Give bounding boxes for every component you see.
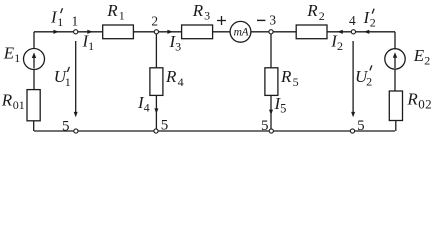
svg-text:R02: R02	[406, 90, 432, 112]
polarity minus	[257, 19, 265, 21]
polarity plus	[217, 16, 226, 25]
current arrow I5 head	[269, 110, 273, 115]
node 5 terminal a	[74, 129, 78, 133]
resistor R5 body	[265, 68, 278, 96]
svg-text:5: 5	[62, 119, 70, 135]
label I1' prime tick	[61, 8, 63, 13]
node 5 terminal b	[154, 129, 158, 133]
wire E2 to R02	[394, 69, 396, 91]
svg-text:I5: I5	[274, 94, 287, 116]
svg-text:R4: R4	[165, 67, 184, 89]
source E2	[385, 49, 405, 69]
source E2 internal arrow head	[393, 52, 397, 58]
source E1 internal arrow head	[32, 52, 36, 58]
wire R4 to bottom	[155, 95, 157, 131]
voltage arrow U1' shaft	[75, 41, 77, 113]
wire node2 to R4	[155, 32, 157, 68]
svg-text:R2: R2	[306, 1, 324, 23]
wire left branch upper	[33, 32, 35, 49]
svg-text:E1: E1	[3, 43, 20, 65]
source E1	[24, 49, 45, 70]
wire right branch upper	[394, 32, 396, 49]
current arrow I1' head	[53, 30, 59, 34]
svg-text:3: 3	[269, 13, 276, 28]
svg-text:I1: I1	[82, 31, 95, 53]
node 3	[269, 30, 273, 34]
source E1 internal arrow shaft	[33, 57, 35, 69]
wire E1 to R01	[33, 70, 35, 90]
node 2	[154, 30, 158, 34]
svg-text:5: 5	[261, 118, 269, 134]
source E2 internal arrow shaft	[394, 56, 396, 68]
label U2' prime tick	[370, 65, 372, 70]
current arrow I4 head	[154, 108, 158, 113]
node 5 terminal d	[350, 129, 354, 133]
wire node3 to R5	[270, 32, 272, 68]
wire R5 to bottom	[270, 95, 272, 131]
resistor R01 body	[27, 90, 40, 121]
svg-text:4: 4	[349, 13, 356, 28]
voltage arrow U2' head	[351, 112, 355, 117]
current arrow I3 head	[167, 30, 173, 34]
svg-text:R01: R01	[1, 91, 25, 113]
svg-text:I3: I3	[169, 32, 182, 54]
svg-text:5: 5	[161, 117, 169, 133]
resistor R02 body	[389, 91, 402, 121]
svg-text:1: 1	[71, 13, 78, 28]
svg-text:R1: R1	[106, 1, 124, 23]
svg-text:5: 5	[357, 118, 365, 134]
label I2' prime tick	[372, 9, 374, 14]
node 5 terminal c	[269, 129, 273, 133]
wire R01 to bottom	[33, 121, 35, 131]
resistor R1 body	[103, 25, 134, 39]
resistor R3 body	[182, 25, 213, 39]
label U1' prime tick	[67, 67, 69, 72]
current arrow I1 head	[87, 30, 93, 34]
svg-text:R5: R5	[280, 67, 299, 89]
voltage arrow U1' head	[74, 112, 78, 117]
milliammeter mA body	[230, 21, 251, 42]
svg-text:R3: R3	[192, 1, 210, 23]
svg-text:I4: I4	[137, 93, 150, 115]
wire R02 to bottom	[395, 121, 397, 132]
resistor R4 body	[150, 68, 163, 96]
resistor R2 body	[296, 25, 327, 39]
wire top rail	[34, 31, 395, 33]
voltage arrow U2' shaft	[352, 41, 354, 113]
current arrow I2 head	[337, 30, 343, 34]
svg-text:2: 2	[151, 13, 158, 28]
current arrow I2' head	[364, 30, 370, 34]
svg-text:mA: mA	[234, 26, 250, 38]
node 4	[351, 30, 355, 34]
svg-text:E2: E2	[413, 46, 430, 68]
node 1	[74, 30, 78, 34]
wire bottom rail node 5	[34, 130, 395, 132]
svg-text:I2: I2	[330, 31, 343, 53]
